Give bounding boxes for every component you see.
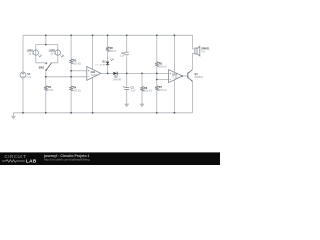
node bottom rail I xyxy=(174,112,176,114)
wire speaker top feed xyxy=(193,35,195,49)
transistor Q1 xyxy=(188,70,193,82)
resistor R6 xyxy=(140,86,144,91)
wire R1 column xyxy=(45,70,47,112)
svg-text:10 k: 10 k xyxy=(28,53,33,56)
svg-text:1N4148: 1N4148 xyxy=(113,78,122,81)
node rail H minus tap xyxy=(156,79,158,81)
wire OA1 vminus pin xyxy=(92,78,94,113)
svg-text:TL082: TL082 xyxy=(172,77,179,79)
node rail F signal xyxy=(126,73,128,75)
wire rail R6 xyxy=(141,73,143,103)
svg-text:5 V: 5 V xyxy=(27,75,31,79)
wire rail R3 LED xyxy=(107,35,109,73)
svg-text:100 kΩ: 100 kΩ xyxy=(159,65,167,68)
svg-text:100 kΩ: 100 kΩ xyxy=(73,62,81,65)
ground under R6 xyxy=(140,104,144,107)
node top rail B xyxy=(45,34,47,36)
capacitor C2 polarized xyxy=(125,52,129,55)
node R1 top xyxy=(45,76,47,78)
voltage source V1 xyxy=(20,72,26,78)
op-amp OA2 xyxy=(169,70,183,83)
node top rail I xyxy=(174,34,176,36)
speaker SPKR1 xyxy=(195,46,200,56)
diode D2 xyxy=(113,72,117,75)
node top rail C xyxy=(70,34,72,36)
wire rail R5 R7 xyxy=(156,35,158,113)
svg-text:OA2: OA2 xyxy=(172,74,177,77)
node rail C crossing xyxy=(70,76,72,78)
wire OA2 vminus pin xyxy=(173,80,175,113)
node top rail F xyxy=(126,34,128,36)
svg-text:2N3904: 2N3904 xyxy=(195,76,204,79)
resistor R7 xyxy=(155,86,159,91)
wire OA1 output xyxy=(101,72,108,74)
node output OA2 xyxy=(181,75,183,77)
footer banner xyxy=(0,152,220,165)
resistor R4 xyxy=(69,86,73,91)
logo zigzag xyxy=(2,160,25,163)
svg-text:100 kΩ: 100 kΩ xyxy=(73,89,81,92)
resistor R3 xyxy=(106,47,110,52)
resistor R5 xyxy=(155,62,159,67)
LDR2 xyxy=(55,50,64,57)
wire emitter to bottom rail xyxy=(192,81,194,113)
op-amp OA1 xyxy=(87,67,101,81)
ground main xyxy=(11,113,15,119)
node bottom rail H xyxy=(156,112,158,114)
LDR1 xyxy=(33,50,42,57)
wire signal run to OA2 plus xyxy=(108,72,169,74)
wire signal to OA1 minus xyxy=(46,76,87,78)
LED D1 xyxy=(106,58,113,65)
svg-text:1 µF: 1 µF xyxy=(131,89,136,92)
wire sensor box top xyxy=(36,45,58,50)
svg-text:LAB: LAB xyxy=(26,159,37,164)
wire speaker bottom to collector xyxy=(193,53,195,69)
wire OA1 vplus pin xyxy=(92,35,94,69)
svg-text:http://circuitlab.com/c/p6baab: http://circuitlab.com/c/p6baab09hng xyxy=(44,158,90,162)
wire divider tap to OA1 plus xyxy=(71,70,87,72)
svg-text:100 kΩ: 100 kΩ xyxy=(144,90,152,93)
node bottom rail C xyxy=(70,112,72,114)
node bottom rail D xyxy=(92,112,94,114)
svg-text:330 Ω: 330 Ω xyxy=(110,50,117,53)
svg-text:100 kΩ: 100 kΩ xyxy=(159,89,167,92)
svg-text:SW1: SW1 xyxy=(39,65,45,69)
resistor R2 xyxy=(69,59,73,64)
node rail C plus tap xyxy=(70,70,72,72)
wire top rail xyxy=(23,34,193,36)
wire OA2 minus tap xyxy=(157,79,169,81)
wire rail R2 R4 xyxy=(70,35,72,113)
node rail G signal xyxy=(141,73,143,75)
svg-text:LTL-307EE: LTL-307EE xyxy=(95,64,106,66)
switch SW1 xyxy=(46,63,52,71)
svg-text:CIRCUIT: CIRCUIT xyxy=(5,154,27,159)
node top rail H xyxy=(156,34,158,36)
node box stub xyxy=(45,44,47,46)
svg-text:1 µF: 1 µF xyxy=(120,55,125,58)
node rail H signal xyxy=(156,73,158,75)
svg-text:OA1: OA1 xyxy=(91,71,96,74)
node top rail D xyxy=(92,34,94,36)
junction dots xyxy=(22,34,175,113)
wire LDR1 drop xyxy=(36,55,45,63)
wire rail C2 C1 xyxy=(126,35,128,103)
wire OA2 output to base xyxy=(182,75,187,77)
node bottom rail B xyxy=(45,112,47,114)
svg-text:8 Ω: 8 Ω xyxy=(201,50,205,53)
wire bottom rail xyxy=(13,112,192,114)
svg-text:1 kΩ: 1 kΩ xyxy=(48,89,53,92)
ground under C1 xyxy=(125,104,129,107)
resistor R1 xyxy=(44,86,48,91)
wire left rail upper xyxy=(22,35,24,72)
node OA1 out rail E xyxy=(107,73,109,75)
node top rail E xyxy=(107,34,109,36)
wire LDR2 drop xyxy=(50,55,58,63)
svg-text:TL082: TL082 xyxy=(91,75,98,77)
wire left rail lower xyxy=(22,78,24,113)
wire sensor box stub xyxy=(45,35,47,44)
node bottom rail A xyxy=(22,112,24,114)
svg-text:10 k: 10 k xyxy=(50,53,55,56)
svg-text:D1: D1 xyxy=(103,61,107,64)
wire OA2 vplus pin xyxy=(173,35,175,72)
capacitor C1 xyxy=(123,86,129,89)
